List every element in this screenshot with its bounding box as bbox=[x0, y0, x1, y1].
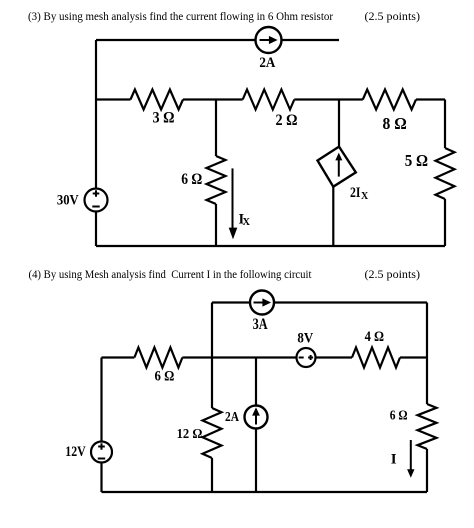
svg-text:12V: 12V bbox=[65, 444, 86, 460]
svg-text:8 Ω: 8 Ω bbox=[382, 114, 406, 133]
svg-text:2I: 2I bbox=[350, 185, 361, 201]
svg-text:3A: 3A bbox=[253, 316, 268, 333]
svg-text:6 Ω: 6 Ω bbox=[390, 407, 408, 422]
svg-text:2 Ω: 2 Ω bbox=[276, 112, 298, 129]
svg-text:2A: 2A bbox=[259, 55, 275, 71]
svg-text:(4) By using Mesh analysis fin: (4) By using Mesh analysis find Current … bbox=[29, 269, 313, 281]
svg-text:X: X bbox=[243, 217, 251, 228]
svg-text:2A: 2A bbox=[225, 409, 239, 424]
svg-text:5 Ω: 5 Ω bbox=[405, 151, 428, 170]
svg-text:(2.5 points): (2.5 points) bbox=[365, 267, 421, 281]
svg-text:(2.5 points): (2.5 points) bbox=[365, 9, 421, 23]
svg-text:6 Ω: 6 Ω bbox=[155, 368, 175, 384]
svg-text:4 Ω: 4 Ω bbox=[365, 329, 384, 345]
svg-text:8V: 8V bbox=[297, 331, 313, 347]
svg-text:12 Ω: 12 Ω bbox=[177, 426, 203, 441]
svg-text:(3) By using mesh analysis fin: (3) By using mesh analysis find the curr… bbox=[28, 11, 333, 23]
svg-text:I: I bbox=[391, 452, 397, 468]
svg-text:X: X bbox=[361, 191, 369, 202]
svg-text:3 Ω: 3 Ω bbox=[153, 109, 175, 126]
svg-text:6 Ω: 6 Ω bbox=[181, 171, 202, 188]
svg-text:30V: 30V bbox=[57, 193, 79, 209]
